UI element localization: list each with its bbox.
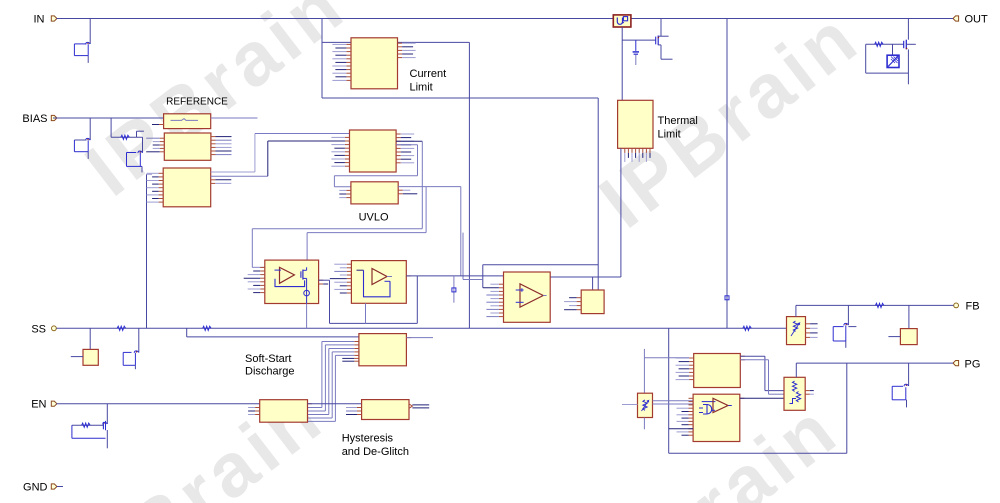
port OUT bbox=[953, 14, 988, 26]
transistor Q9 at FB rail bbox=[833, 305, 856, 347]
svg-text:UVLO: UVLO bbox=[359, 212, 389, 224]
label Current Limit bbox=[410, 68, 447, 94]
wire bandgap to W1 bbox=[252, 141, 422, 267]
block soft-start discharge U14 bbox=[342, 334, 411, 366]
resistor on FB rail R4 bbox=[875, 303, 884, 307]
block bandgap U6 bbox=[331, 130, 414, 172]
wire EN rail bbox=[57, 403, 260, 405]
wire current-limit top tap bbox=[322, 19, 351, 99]
wire current-limit bottom loop bbox=[322, 97, 598, 99]
transistor Q1 at IN rail bbox=[74, 19, 90, 63]
watermark IPBrain bottom-right bbox=[564, 386, 855, 503]
transistor Q8 at SS rail bbox=[123, 328, 139, 369]
block threshold divider U18 bbox=[638, 393, 653, 417]
wire BIAS tap x111 bbox=[111, 118, 142, 137]
label Soft-Start Discharge bbox=[245, 353, 295, 378]
wire vertical x469 bbox=[468, 42, 470, 328]
wire IN rail bbox=[57, 18, 954, 20]
block driver op-amp U12 bbox=[483, 272, 550, 322]
wire VREF to bandgap lower bbox=[211, 141, 350, 176]
svg-text:FB: FB bbox=[966, 301, 980, 313]
pass transistor Q3 with body diode bbox=[866, 19, 916, 85]
svg-text:REFERENCE: REFERENCE bbox=[166, 96, 228, 107]
port SS bbox=[31, 323, 56, 335]
wire OUT drop x727 bbox=[726, 19, 728, 329]
wire driver top link bbox=[483, 265, 598, 288]
sense box U23 at FB bbox=[888, 305, 917, 344]
transistor Q6 at EN rail bbox=[72, 404, 107, 449]
port GND bbox=[23, 482, 63, 494]
svg-text:PG: PG bbox=[965, 358, 981, 370]
resistor on SS rail R1 bbox=[117, 326, 126, 330]
wire gate lead y40 bbox=[622, 39, 656, 41]
label UVLO bbox=[359, 212, 389, 224]
block buffer B U11 bbox=[330, 261, 411, 304]
wire thermal sense to driver bbox=[550, 148, 621, 290]
wire vertical x598 to driver bbox=[597, 98, 599, 290]
svg-text:SS: SS bbox=[31, 323, 46, 335]
block current limit U8 bbox=[332, 38, 415, 89]
wire BIAS rail bbox=[53, 117, 164, 119]
block en comparator U15 bbox=[248, 400, 312, 423]
wire reference cell output stub bbox=[211, 117, 258, 119]
svg-text:Current: Current bbox=[410, 68, 447, 80]
wire PG deglitch long pin bbox=[669, 428, 693, 430]
svg-text:EN: EN bbox=[31, 399, 46, 411]
node stub x453 bbox=[452, 276, 456, 303]
transistor Q4 at BIAS rail bbox=[74, 118, 90, 159]
wire bandgap to UVLO bbox=[334, 145, 417, 187]
wire vertical x668 PG loop bbox=[669, 328, 847, 453]
svg-text:Thermal: Thermal bbox=[658, 115, 698, 127]
svg-text:GND: GND bbox=[23, 482, 48, 494]
block driver stage U13 bbox=[564, 290, 604, 314]
block error amp A U10 bbox=[244, 260, 329, 303]
transistor Q2 pass-gate top bbox=[656, 19, 673, 60]
port PG bbox=[953, 358, 980, 370]
block reference amplifier U4 bbox=[146, 133, 231, 160]
resistor on SS rail R2 bbox=[203, 326, 212, 330]
watermark IPBrain bottom-left bbox=[49, 373, 340, 503]
wire PG comparator outputs bbox=[740, 356, 784, 394]
block REFERENCE label bbox=[166, 96, 228, 107]
wire A output to B loop bbox=[319, 276, 418, 324]
resistor on SS rail R3 bbox=[743, 326, 752, 330]
svg-text:Hysteresis: Hysteresis bbox=[342, 432, 394, 444]
transistor Q5 bbox=[127, 137, 143, 172]
wire FB divider to rail bbox=[795, 305, 797, 316]
wire FB rail bbox=[796, 304, 954, 306]
block reference core U5 bbox=[147, 168, 232, 207]
wire PG rail bbox=[796, 362, 953, 364]
watermark IPBrain top-left bbox=[71, 0, 362, 212]
capacitor box U21 at SS bbox=[71, 328, 99, 365]
wire SS rail bbox=[57, 327, 787, 329]
wire PG deglitch output bbox=[740, 397, 784, 399]
port EN bbox=[31, 399, 57, 411]
svg-text:OUT: OUT bbox=[965, 14, 989, 26]
svg-text:and De-Glitch: and De-Glitch bbox=[342, 446, 409, 458]
svg-text:IN: IN bbox=[34, 14, 45, 26]
resistor R5 bbox=[121, 135, 130, 139]
wire UVLO output net bbox=[307, 187, 483, 280]
wire VREF vertical x146 bbox=[147, 174, 153, 328]
block UVLO U7 bbox=[339, 182, 417, 204]
block reference bandgap cell U3 bbox=[152, 114, 258, 129]
wire B output rail bbox=[406, 275, 503, 277]
wire threshold links bbox=[622, 401, 693, 430]
wire SSD output bbox=[406, 337, 433, 339]
transistor Q7 at PG rail bbox=[892, 363, 908, 407]
wire en link bbox=[308, 403, 362, 405]
block thermal limit U9 bbox=[618, 100, 653, 162]
capacitor C1 bbox=[633, 40, 639, 65]
wire B bottom bbox=[365, 303, 367, 323]
current sense box U2 bbox=[613, 15, 631, 27]
junction node x727 bbox=[725, 296, 729, 300]
wire bundle soft-start to hysteresis bbox=[308, 342, 355, 422]
svg-text:Soft-Start: Soft-Start bbox=[245, 353, 291, 365]
block PG driver U20 bbox=[784, 377, 814, 410]
wire A bottom bbox=[306, 304, 308, 329]
wire sense box to thermal limit bbox=[621, 27, 623, 100]
svg-text:Limit: Limit bbox=[410, 82, 433, 94]
svg-text:Discharge: Discharge bbox=[245, 366, 295, 378]
wire hysteresis outputs bbox=[409, 404, 429, 408]
wire narrow block feed bbox=[644, 349, 689, 393]
block PG deglitch U19 bbox=[677, 394, 745, 441]
port FB bbox=[954, 301, 980, 313]
wire PG driver to rail bbox=[795, 363, 797, 377]
wire gate hook bbox=[137, 131, 144, 137]
label Hysteresis and De-Glitch bbox=[342, 432, 409, 457]
wire SS lower branch bbox=[187, 328, 359, 337]
svg-text:BIAS: BIAS bbox=[22, 113, 47, 125]
port IN bbox=[34, 14, 57, 26]
wire VREF to bandgap upper bbox=[211, 134, 350, 173]
wire current-limit right to output rail bbox=[398, 41, 470, 43]
label Thermal Limit bbox=[658, 115, 698, 141]
block hysteresis U16 bbox=[346, 400, 409, 420]
block PG comparator U17 bbox=[676, 354, 745, 388]
port BIAS bbox=[22, 113, 56, 125]
svg-text:Limit: Limit bbox=[658, 129, 681, 141]
watermark IPBrain top-right bbox=[585, 0, 876, 244]
block feedback divider U22 bbox=[787, 317, 818, 345]
body diode D1 bbox=[887, 55, 899, 67]
